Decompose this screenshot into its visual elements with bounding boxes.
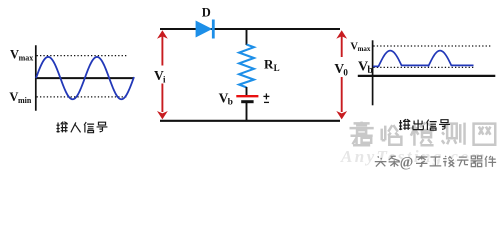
diode D (anode left, cathode bar right) bbox=[196, 20, 215, 39]
watermark 嘉峪检测网 (light gray) bbox=[350, 122, 496, 146]
svg-text:R: R bbox=[264, 57, 274, 72]
label Vb (output) bbox=[358, 60, 373, 76]
label RL bbox=[264, 57, 280, 74]
battery Vb positive plate (red, long) bbox=[236, 95, 258, 97]
battery minus sign bbox=[264, 101, 269, 103]
Vi measurement arrow (double headed, red) bbox=[157, 30, 168, 119]
svg-text:L: L bbox=[274, 63, 280, 73]
label Vmax (input) bbox=[10, 48, 33, 63]
label Vb bbox=[219, 90, 233, 107]
label Vmin (input) bbox=[9, 90, 31, 105]
input signal vertical axis bbox=[35, 45, 37, 111]
svg-text:max: max bbox=[358, 45, 371, 53]
output signal horizontal axis bbox=[358, 75, 496, 77]
label 输出信号 bbox=[399, 119, 450, 130]
output Vb dotted level line bbox=[373, 66, 474, 68]
svg-text:b: b bbox=[367, 65, 373, 76]
wire stub resistor to battery bbox=[246, 87, 248, 95]
svg-text:0: 0 bbox=[343, 67, 348, 77]
input signal horizontal axis bbox=[35, 77, 134, 79]
label 输入信号 bbox=[57, 122, 108, 133]
resistor RL (blue zigzag) bbox=[239, 45, 254, 88]
output clipped waveform bbox=[373, 51, 474, 67]
wire stub battery to bottom rail bbox=[246, 103, 248, 122]
label Vi bbox=[154, 68, 166, 85]
label Vmax (output) bbox=[350, 41, 371, 53]
svg-text:D: D bbox=[202, 6, 211, 20]
svg-text:i: i bbox=[163, 75, 166, 85]
input sine waveform bbox=[36, 57, 134, 99]
input Vmax dotted level line bbox=[37, 55, 128, 57]
svg-text:min: min bbox=[18, 96, 32, 105]
label V0 bbox=[334, 61, 348, 78]
output signal vertical axis bbox=[372, 40, 374, 105]
battery Vb negative plate (black, short) bbox=[241, 100, 253, 103]
wire stub from top rail to resistor bbox=[246, 29, 248, 45]
svg-text:@: @ bbox=[400, 155, 414, 171]
V0 measurement arrow (double headed, red) bbox=[336, 30, 347, 119]
input Vmin dotted level line bbox=[37, 96, 128, 98]
output Vmax dotted level line bbox=[373, 45, 491, 47]
wire top rail bbox=[160, 28, 340, 30]
svg-text:b: b bbox=[228, 98, 233, 108]
svg-text:max: max bbox=[19, 54, 34, 63]
wire bottom rail bbox=[160, 120, 340, 122]
watermark 头条@李工谈元器件 (embossed gray) bbox=[375, 155, 497, 172]
battery plus sign bbox=[263, 93, 269, 99]
